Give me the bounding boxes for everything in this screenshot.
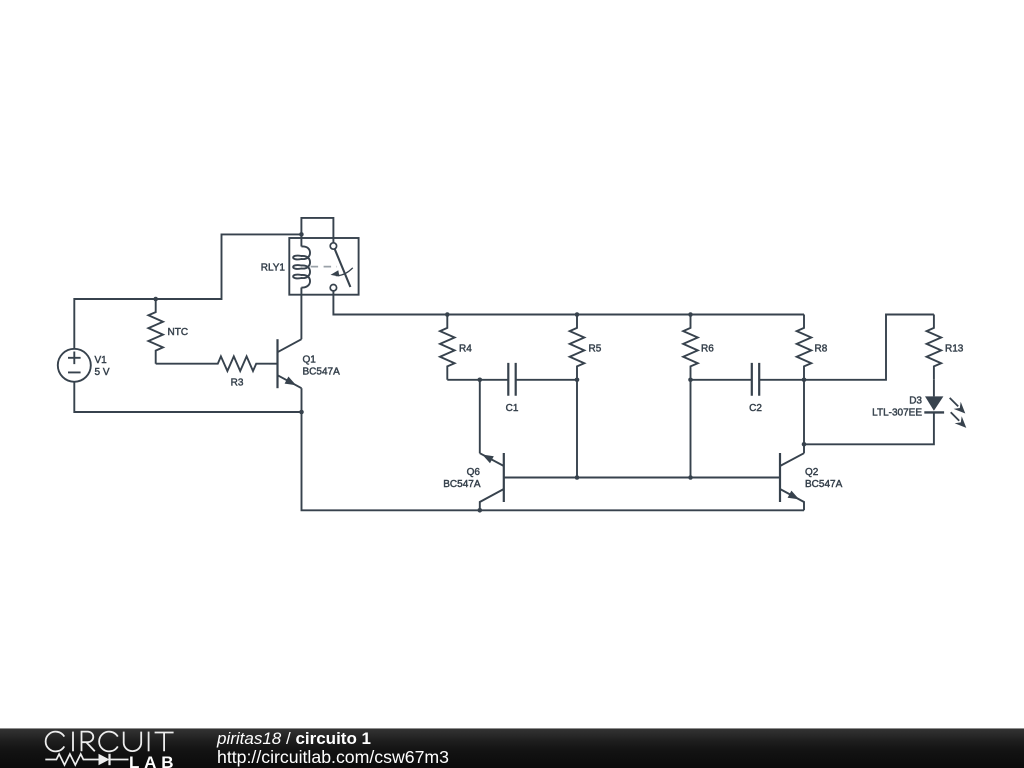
svg-text:BC547A: BC547A	[303, 367, 341, 378]
svg-text:BC547A: BC547A	[805, 479, 843, 490]
svg-text:R6: R6	[701, 343, 714, 354]
svg-text:NTC: NTC	[168, 327, 189, 338]
svg-text:R4: R4	[459, 343, 472, 354]
svg-text:LTL-307EE: LTL-307EE	[872, 407, 922, 418]
svg-text:Q2: Q2	[805, 467, 819, 478]
svg-text:R8: R8	[815, 343, 828, 354]
svg-text:R5: R5	[589, 343, 602, 354]
svg-text:R3: R3	[231, 378, 244, 389]
svg-text:R13: R13	[945, 343, 964, 354]
svg-text:C1: C1	[506, 403, 519, 414]
svg-text:D3: D3	[909, 396, 922, 407]
svg-text:C2: C2	[749, 403, 762, 414]
svg-text:V1: V1	[95, 355, 108, 366]
svg-text:Q6: Q6	[467, 467, 481, 478]
svg-text:BC547A: BC547A	[443, 479, 481, 490]
svg-text:Q1: Q1	[303, 355, 317, 366]
svg-text:RLY1: RLY1	[261, 263, 286, 274]
svg-text:5 V: 5 V	[95, 367, 110, 378]
